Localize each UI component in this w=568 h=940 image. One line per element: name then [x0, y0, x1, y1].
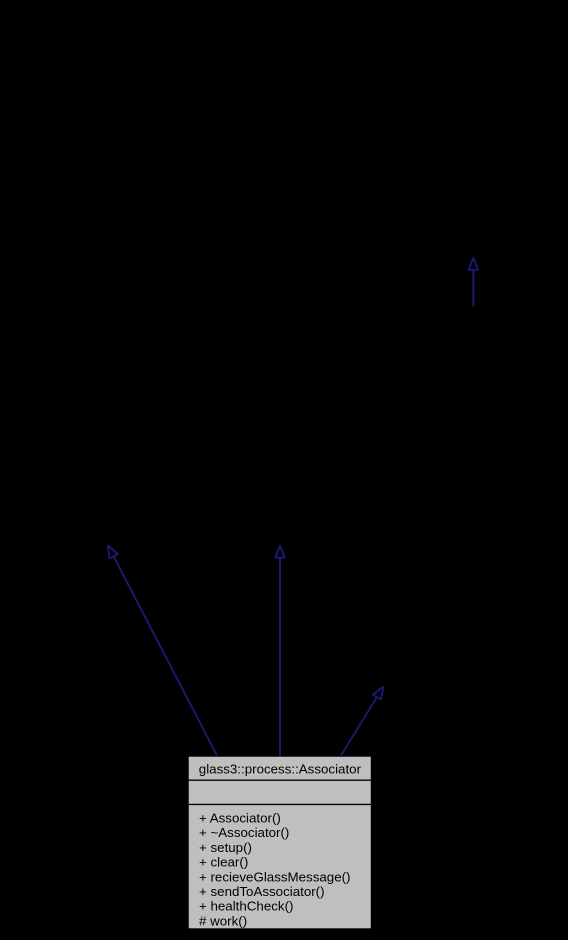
- svg-text:+ Associator(): + Associator(): [199, 810, 281, 825]
- svg-text:# work(): # work(): [199, 913, 247, 928]
- separator under attributes: [188, 803, 372, 805]
- svg-text:+ clear(): + clear(): [199, 855, 248, 870]
- svg-text:+ sendToAssociator(): + sendToAssociator(): [199, 884, 325, 899]
- svg-text:+ recieveGlassMessage(): + recieveGlassMessage(): [199, 869, 350, 884]
- inheritance arrow right diagonal : wire: [341, 687, 383, 756]
- wire right edge: [341, 697, 377, 756]
- separator under title: [188, 779, 372, 781]
- class box body: [188, 756, 372, 929]
- arrowhead right: [373, 687, 383, 700]
- arrowhead left: [108, 545, 118, 558]
- wire left edge: [114, 556, 217, 755]
- inheritance arrow top-right : wire: [469, 258, 478, 307]
- svg-text:+ ~Associator(): + ~Associator(): [199, 825, 289, 840]
- wire middle edge: [279, 558, 281, 756]
- arrowhead middle: [275, 546, 284, 558]
- svg-text:+ setup(): + setup(): [199, 840, 252, 855]
- svg-text:glass3::process::Associator: glass3::process::Associator: [199, 762, 362, 777]
- inheritance arrow to util::ThreadBaseClass (left) : wire: [108, 545, 217, 755]
- class box glass3::process::Associator: [188, 756, 372, 929]
- svg-text:+ healthCheck(): + healthCheck(): [199, 899, 293, 914]
- wire top-right edge: [472, 270, 474, 307]
- arrowhead top-right: [469, 258, 478, 270]
- inheritance arrow middle : wire: [275, 546, 284, 756]
